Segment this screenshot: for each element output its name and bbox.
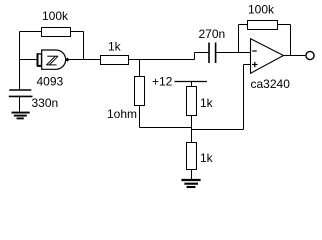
wire feedback top-left horizontal	[239, 24, 248, 26]
svg-text:1ohm: 1ohm	[107, 107, 137, 121]
wire op-amp output	[283, 55, 306, 57]
wire gate input branch	[20, 59, 38, 61]
svg-text:4093: 4093	[37, 75, 64, 89]
svg-text:1k: 1k	[108, 40, 122, 54]
wire R4 bottom through junction	[191, 116, 193, 143]
resistor R6 100k	[248, 3, 278, 30]
NAND gate U1 4093	[37, 50, 69, 69]
wire R3 bottom	[139, 106, 141, 128]
wire top-left horizontal to R1	[20, 31, 42, 33]
wire gate output	[69, 59, 100, 61]
svg-text:100k: 100k	[248, 3, 275, 17]
resistor R5 1k	[187, 143, 214, 170]
wire R2 to jog	[129, 59, 195, 61]
ground left	[12, 113, 30, 119]
wire feedback up from inverting node	[238, 25, 240, 53]
svg-text:ca3240: ca3240	[251, 77, 291, 91]
wire C2 to op-amp inverting input	[216, 52, 250, 54]
wire left vertical	[19, 32, 21, 91]
svg-text:+12: +12	[152, 75, 173, 89]
resistor R2 1k	[101, 40, 129, 65]
wire jog vertical	[194, 53, 196, 60]
wire R5 to ground	[191, 170, 193, 180]
supply +12	[152, 75, 207, 89]
wire non-inverting stub	[244, 64, 251, 66]
wire feedback down to output	[290, 25, 292, 56]
resistor R3 1ohm	[107, 77, 145, 122]
resistor R4 1k	[187, 87, 214, 116]
wire R1 right to corner	[71, 31, 84, 33]
wire jog to C2	[195, 52, 210, 54]
wire junction to non-inverting branch	[192, 129, 244, 131]
capacitor C2 270n	[199, 27, 226, 63]
wire junction down to R3	[139, 60, 141, 77]
resistor R1 100k	[42, 9, 71, 37]
terminal output	[306, 51, 314, 59]
wire up to non-inverting input	[243, 65, 245, 130]
svg-text:330n: 330n	[32, 96, 59, 110]
capacitor C1 330n	[9, 90, 33, 112]
wire feedback right vertical	[83, 32, 85, 61]
op-amp U2 ca3240	[251, 39, 284, 74]
wire bottom horizontal	[140, 127, 192, 129]
wire R6 right	[278, 24, 291, 26]
svg-text:100k: 100k	[42, 9, 69, 23]
svg-text:270n: 270n	[199, 27, 226, 41]
svg-text:1k: 1k	[200, 151, 214, 165]
svg-text:1k: 1k	[200, 96, 214, 110]
ground right	[181, 180, 200, 187]
